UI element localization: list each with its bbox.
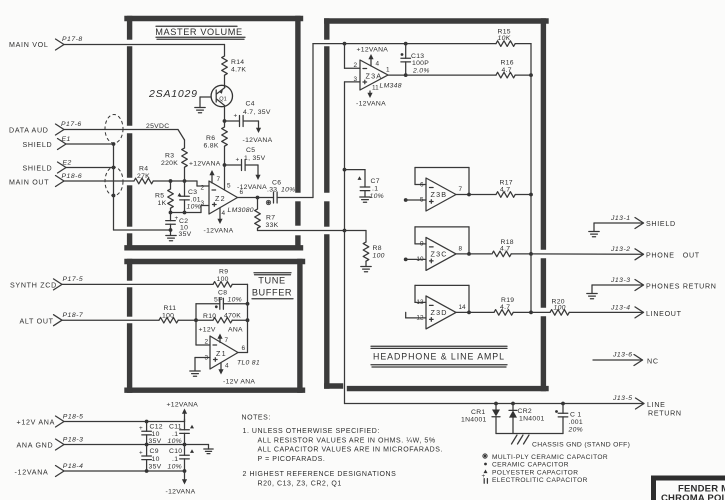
svg-text:4.7: 4.7 bbox=[502, 67, 512, 74]
svg-text:+12VANA: +12VANA bbox=[167, 402, 199, 409]
capacitor C12 10 35V electrolytic bbox=[139, 422, 163, 446]
svg-text:4.7: 4.7 bbox=[500, 304, 510, 311]
svg-text:NOTES:: NOTES: bbox=[242, 415, 271, 422]
svg-text:35V: 35V bbox=[149, 464, 162, 471]
wire + bus corner to Z3D pin12 bbox=[406, 312, 426, 318]
pin 4 label Z3A bbox=[376, 61, 380, 68]
svg-text:ALL CAPACITOR VALUES ARE IN MI: ALL CAPACITOR VALUES ARE IN MICROFARADS. bbox=[258, 447, 444, 454]
enclosure box TUNE BUFFER (thick border with wire gaps) bbox=[127, 262, 303, 391]
svg-text:P18-7: P18-7 bbox=[63, 312, 84, 319]
svg-text:6.8K: 6.8K bbox=[204, 143, 219, 150]
svg-text:Z2: Z2 bbox=[215, 194, 226, 203]
capacitor C6 .33 10% multi-ply bbox=[258, 180, 314, 205]
svg-text:10K: 10K bbox=[498, 35, 511, 42]
svg-text:-12VANA: -12VANA bbox=[166, 489, 196, 496]
power -12V ANA at Z1 pin4 bbox=[218, 363, 255, 386]
svg-text:CR1: CR1 bbox=[471, 409, 486, 416]
svg-text:MULTI-PLY CERAMIC CAPACITOR: MULTI-PLY CERAMIC CAPACITOR bbox=[492, 454, 608, 461]
power -12VANA at Z2 pin4 bbox=[204, 208, 234, 235]
svg-text:MAIN VOL: MAIN VOL bbox=[9, 41, 49, 49]
svg-text:PHONES RETURN: PHONES RETURN bbox=[646, 283, 717, 291]
svg-text:13: 13 bbox=[416, 299, 424, 306]
svg-text:+: + bbox=[139, 450, 143, 457]
svg-text:100: 100 bbox=[217, 276, 229, 283]
svg-text:CHASSIS GND (STAND OFF): CHASSIS GND (STAND OFF) bbox=[532, 442, 630, 449]
junction C7 tap bbox=[343, 168, 347, 172]
svg-text:10%: 10% bbox=[228, 296, 243, 303]
svg-text:1N4001: 1N4001 bbox=[461, 417, 487, 424]
pin 1 label Z3A bbox=[386, 67, 390, 74]
svg-text:P18-4: P18-4 bbox=[63, 463, 84, 470]
capacitor C4 4.7/35V electrolytic bbox=[225, 101, 271, 127]
svg-text:220K: 220K bbox=[161, 160, 178, 167]
svg-text:J13-6: J13-6 bbox=[612, 352, 633, 359]
pin 2 label Z3A bbox=[353, 62, 357, 69]
op-amp Z2 LM3080 bbox=[209, 181, 254, 214]
svg-text:3: 3 bbox=[353, 76, 357, 83]
wire line-return bus bottom to J13-5 bbox=[345, 398, 645, 409]
svg-text:J13-5: J13-5 bbox=[612, 395, 633, 402]
node J13-4 LINEOUT bbox=[610, 305, 682, 318]
svg-text:.1: .1 bbox=[172, 456, 178, 463]
svg-text:.1: .1 bbox=[372, 186, 378, 193]
svg-text:+12VANA: +12VANA bbox=[357, 47, 389, 54]
junction C11 bottom bbox=[183, 443, 187, 447]
wire Z3A pin2 stub bbox=[345, 44, 361, 69]
resistor R18 4.7 bbox=[492, 239, 514, 257]
op-amp Z3C (follower) with feedback loop bbox=[415, 227, 471, 271]
wire E1 to shield bus bbox=[66, 143, 114, 145]
ground at Z1 pin3 bbox=[190, 371, 200, 376]
node J13-1 SHIELD with ground bbox=[589, 215, 676, 237]
wire + input bus (Z3A pin3 down to line return) bbox=[344, 82, 346, 404]
junction Z2 out / R7 / C6 bbox=[256, 196, 260, 200]
svg-text:100: 100 bbox=[162, 312, 174, 319]
svg-text:R6: R6 bbox=[206, 135, 215, 142]
svg-text:2SA1029: 2SA1029 bbox=[148, 88, 198, 100]
wire Q1 base to ground bbox=[200, 97, 211, 108]
note 1 line 3 bbox=[258, 447, 444, 454]
svg-text:P17-5: P17-5 bbox=[63, 276, 84, 283]
svg-text:R9: R9 bbox=[219, 269, 228, 276]
junction R15/R16 output bus bbox=[529, 73, 533, 77]
notes heading bbox=[242, 415, 271, 422]
wire R9 to output rail bbox=[232, 284, 247, 303]
op-amp Z3B (follower) with feedback loop bbox=[415, 168, 471, 212]
op-amp Z1 TL081 bbox=[210, 336, 260, 369]
svg-text:7: 7 bbox=[225, 337, 229, 344]
power +12VANA at Z2 pin7 bbox=[189, 161, 221, 184]
power -12VANA arrow down bbox=[166, 471, 196, 496]
pin 7 label Z2 bbox=[217, 176, 221, 183]
svg-text:E1: E1 bbox=[62, 136, 71, 143]
power -12VANA at C4 bbox=[243, 121, 273, 144]
wire Z3A input node to C13/R15 bbox=[345, 43, 406, 45]
svg-text:TL0 81: TL0 81 bbox=[237, 360, 260, 367]
svg-text:100: 100 bbox=[554, 304, 566, 311]
svg-text:470K: 470K bbox=[224, 313, 241, 320]
svg-text:LINEOUT: LINEOUT bbox=[646, 310, 682, 318]
wire E2 to shield bus bbox=[66, 167, 114, 169]
resistor R20 100 bbox=[550, 299, 569, 316]
svg-text:SHIELD: SHIELD bbox=[23, 165, 53, 173]
svg-text:R16: R16 bbox=[501, 60, 514, 67]
diode CR2 1N4001 bbox=[509, 404, 545, 434]
wire Z3A out to R16 bbox=[406, 74, 496, 76]
svg-text:14: 14 bbox=[459, 304, 467, 311]
wire Z3D out to R19 bbox=[469, 311, 494, 313]
svg-text:LM348: LM348 bbox=[380, 83, 402, 90]
svg-text:1K: 1K bbox=[158, 200, 167, 207]
svg-text:HEADPHONE & LINE AMPL: HEADPHONE & LINE AMPL bbox=[373, 352, 505, 362]
svg-text:+: + bbox=[175, 215, 179, 222]
title block FENDER / CHROMA (clipped at page corner) bbox=[654, 478, 725, 500]
op-amp Z3D (follower) with feedback loop bbox=[415, 285, 471, 329]
capacitor C9 10 35V electrolytic bbox=[142, 445, 152, 472]
junction R4/R5 bbox=[169, 179, 173, 183]
node MAIN OUT / P18-6 bbox=[9, 173, 82, 187]
svg-text:100: 100 bbox=[373, 253, 385, 260]
svg-text:C12: C12 bbox=[150, 424, 163, 431]
wire R11 to R10 node bbox=[178, 319, 196, 321]
resistor R3 220K vertical bbox=[161, 140, 187, 181]
junction C1 top bbox=[561, 402, 565, 406]
svg-text:TUNE: TUNE bbox=[258, 276, 285, 286]
svg-text:POLYESTER CAPACITOR: POLYESTER CAPACITOR bbox=[492, 469, 578, 476]
junction R7-R8 wire crossing + input bus bbox=[343, 229, 347, 233]
svg-text:10%: 10% bbox=[281, 187, 296, 194]
junction C12 top bbox=[145, 420, 149, 424]
wire Z3A pin3 stub bbox=[345, 81, 361, 83]
svg-text:NC: NC bbox=[647, 358, 659, 366]
note 1 line 4 bbox=[258, 456, 326, 463]
note 2 line 1 bbox=[243, 471, 397, 478]
svg-text:10: 10 bbox=[152, 431, 160, 438]
wire Z3A output bbox=[388, 74, 406, 76]
capacitor C2 10 35V electrolytic bbox=[166, 213, 192, 239]
power +12VANA at Z3A pin4 bbox=[357, 47, 389, 67]
svg-text:R11: R11 bbox=[164, 305, 177, 312]
wire R19 to bus bbox=[513, 311, 533, 315]
wire MAIN VOL to R14 bbox=[64, 45, 225, 57]
pin 3 label Z2 bbox=[200, 200, 204, 207]
junction Z3A pin2 node bbox=[343, 42, 347, 46]
junction C3 bottom bbox=[183, 211, 187, 215]
wire P18-4 rail bbox=[64, 470, 185, 472]
svg-text:Z3B: Z3B bbox=[431, 190, 448, 199]
svg-text:CERAMIC CAPACITOR: CERAMIC CAPACITOR bbox=[492, 462, 569, 469]
svg-text:MASTER VOLUME: MASTER VOLUME bbox=[155, 27, 242, 37]
wire Q1 emitter down bbox=[224, 106, 226, 121]
svg-text:.01: .01 bbox=[191, 197, 201, 204]
svg-text:R3: R3 bbox=[165, 153, 174, 160]
junction C13 top bbox=[404, 42, 408, 46]
svg-text:1. UNLESS OTHERWISE SPECIFIED:: 1. UNLESS OTHERWISE SPECIFIED: bbox=[243, 428, 380, 435]
wire Z1 pin3 to ground bbox=[195, 358, 210, 371]
node +12VANA / P18-5 bbox=[17, 414, 84, 428]
svg-text:6: 6 bbox=[240, 189, 244, 196]
node J13-5 LINE RETURN bbox=[612, 395, 682, 418]
svg-text:4.7K: 4.7K bbox=[231, 67, 246, 74]
svg-text:SYNTH ZCD: SYNTH ZCD bbox=[10, 282, 57, 290]
junction CR2 top bbox=[511, 402, 515, 406]
svg-text:J13-2: J13-2 bbox=[610, 246, 631, 253]
svg-text:P18-6: P18-6 bbox=[62, 173, 83, 180]
svg-text:9: 9 bbox=[420, 241, 424, 248]
svg-text:R19: R19 bbox=[501, 297, 514, 304]
svg-text:ELECTROLITIC CAPACITOR: ELECTROLITIC CAPACITOR bbox=[492, 477, 588, 484]
title HEADPHONE & LINE AMPL with overline and underline bbox=[371, 346, 507, 367]
svg-text:2: 2 bbox=[204, 339, 208, 346]
wire Z2 output bbox=[238, 197, 258, 199]
svg-text:5: 5 bbox=[227, 183, 231, 190]
node SYNTH ZCD / P17-5 bbox=[10, 276, 83, 290]
resistor R4 27K bbox=[134, 166, 153, 184]
ground at Q1 base bbox=[195, 108, 205, 113]
svg-text:+12V: +12V bbox=[199, 327, 216, 334]
svg-text:LINE: LINE bbox=[647, 401, 666, 409]
svg-text:1N4001: 1N4001 bbox=[519, 416, 545, 423]
svg-text:4.7, 35V: 4.7, 35V bbox=[243, 109, 271, 116]
svg-text:33K: 33K bbox=[266, 222, 279, 229]
svg-text:C9: C9 bbox=[150, 448, 159, 455]
svg-text:7: 7 bbox=[459, 186, 463, 193]
note 2 line 2 bbox=[258, 480, 342, 487]
enclosure box MASTER VOLUME (dashed thick border with wire gaps) bbox=[127, 19, 301, 248]
pin 6 label Z2 bbox=[240, 189, 244, 196]
svg-text:C5: C5 bbox=[246, 147, 255, 154]
node SHIELD E2 bbox=[23, 160, 72, 174]
junction R10 left bbox=[194, 318, 198, 322]
pin 3 label Z1 bbox=[204, 355, 208, 362]
svg-text:2: 2 bbox=[353, 62, 357, 69]
svg-text:C3: C3 bbox=[188, 189, 197, 196]
labels C9 bbox=[139, 448, 162, 471]
junction Q1 emitter / C4 / R6 bbox=[223, 119, 227, 123]
pin 4 label Z1 bbox=[225, 363, 229, 370]
node J13-2 PHONE OUT bbox=[610, 246, 700, 260]
svg-text:-12V ANA: -12V ANA bbox=[223, 379, 255, 386]
wire ALT OUT to R11 bbox=[62, 319, 159, 321]
wire MAIN OUT to R4 bbox=[64, 180, 134, 182]
wire + bus to Z3B pin5 bbox=[404, 198, 426, 202]
title TUNE BUFFER with overline and underline bbox=[252, 273, 293, 299]
junction C8 right bbox=[246, 302, 250, 306]
svg-text:+: + bbox=[482, 473, 486, 480]
op-amp Z3A LM348 bbox=[360, 60, 402, 90]
node J13-6 NC bbox=[593, 352, 659, 366]
node -12VANA / P18-4 bbox=[15, 463, 84, 477]
junction R4/C3/R3 bbox=[183, 179, 187, 183]
svg-text:E2: E2 bbox=[63, 160, 72, 167]
resistor R7 33K vertical bbox=[255, 198, 279, 231]
wire R4 to Z2 pin2 bbox=[153, 181, 209, 186]
svg-text:25VDC: 25VDC bbox=[146, 123, 169, 130]
svg-text:P17-8: P17-8 bbox=[62, 36, 83, 43]
junction shield to C2 ground wire bbox=[169, 228, 173, 232]
svg-text:RETURN: RETURN bbox=[648, 410, 682, 418]
wire Z3C out to R18 bbox=[469, 253, 491, 255]
pin 3 label Z3A bbox=[353, 76, 357, 83]
wire R7 to R8 node (crosses borders) bbox=[258, 230, 346, 232]
pin 2 label Z2 bbox=[200, 185, 204, 192]
svg-text:6: 6 bbox=[420, 181, 424, 188]
resistor R14 vertical bbox=[222, 56, 247, 75]
resistor R10 470K bbox=[196, 313, 248, 324]
junction C12 bottom bbox=[145, 443, 149, 447]
svg-text:C13: C13 bbox=[411, 53, 424, 60]
svg-text:1, 35V: 1, 35V bbox=[244, 155, 266, 162]
wire P18-3 rail to ground bbox=[64, 445, 209, 450]
svg-text:P17-6: P17-6 bbox=[61, 121, 82, 128]
wire R15 to output bus bbox=[515, 44, 531, 76]
wire DATA AUD to R3 (25VDC net) bbox=[64, 130, 185, 141]
wire R14 to Q1 collector bbox=[224, 75, 226, 87]
labels C10 bbox=[168, 448, 195, 471]
junction shield below ellipse 2 bbox=[112, 194, 116, 198]
capacitor C8 5P 10% ceramic bbox=[196, 290, 248, 310]
wire Z2 pin5 stub bbox=[224, 165, 226, 190]
capacitor C13 100P 2.0% ceramic bbox=[401, 44, 430, 76]
svg-text:11: 11 bbox=[372, 85, 379, 92]
capacitor C7 .1 10% polyester with ground bbox=[345, 170, 385, 203]
ground at ANA GND bbox=[204, 449, 213, 454]
svg-text:J13-3: J13-3 bbox=[610, 277, 631, 284]
svg-text:BUFFER: BUFFER bbox=[252, 288, 292, 298]
svg-text:+12V ANA: +12V ANA bbox=[17, 419, 56, 427]
wire R5-C3 node to Z2 pin3 bbox=[171, 206, 210, 213]
svg-text:R20, C13, Z3, CR2, Q1: R20, C13, Z3, CR2, Q1 bbox=[258, 480, 342, 487]
svg-text:R7: R7 bbox=[266, 215, 275, 222]
svg-text:100P: 100P bbox=[412, 60, 429, 67]
svg-text:2.0%: 2.0% bbox=[412, 68, 430, 75]
svg-text:6: 6 bbox=[242, 345, 246, 352]
pin 5 label Z2 bbox=[227, 183, 231, 190]
svg-text:+: + bbox=[139, 425, 143, 432]
wire to R8 bbox=[345, 230, 367, 232]
wire R6 to Z2 node bbox=[224, 146, 226, 165]
pin 4 label Z2 bbox=[222, 210, 226, 217]
junction C9 bottom bbox=[145, 469, 149, 473]
capacitor C1 .001 20% ceramic bbox=[555, 404, 583, 434]
wire output rail to Z1 out bbox=[238, 304, 248, 353]
capacitor C3 .01 10% polyester bbox=[178, 181, 202, 213]
svg-text:.1: .1 bbox=[172, 431, 178, 438]
svg-text:C6: C6 bbox=[272, 180, 281, 187]
note 1 line 2 bbox=[258, 437, 436, 444]
pin 6 label Z1 bbox=[242, 345, 246, 352]
node MAIN VOL / P17-8 bbox=[9, 36, 83, 50]
svg-text:Z3D: Z3D bbox=[431, 308, 448, 317]
junction R6 / C5 / Z2 pin5 bbox=[223, 163, 227, 167]
svg-text:R5: R5 bbox=[155, 193, 164, 200]
svg-text:-12VANA: -12VANA bbox=[204, 228, 234, 235]
svg-text:P18-5: P18-5 bbox=[63, 414, 84, 421]
wire R18 to bus and PHONE OUT bbox=[511, 252, 643, 256]
legend polyester capacitor bbox=[484, 469, 579, 476]
power -12VANA at Z3A pin11 bbox=[356, 91, 386, 108]
svg-text:SHIELD: SHIELD bbox=[23, 141, 53, 149]
svg-text:J13-4: J13-4 bbox=[610, 305, 631, 312]
svg-text:R4: R4 bbox=[139, 166, 148, 173]
pin 11 label Z3A bbox=[372, 85, 379, 92]
resistor R5 1K vertical bbox=[155, 181, 173, 213]
wire output bus down bbox=[530, 75, 532, 312]
power -12VANA at C5 bbox=[237, 165, 267, 191]
svg-text:ANA GND: ANA GND bbox=[17, 442, 54, 450]
svg-text:4: 4 bbox=[376, 61, 380, 68]
wire + bus to Z3C pin10 bbox=[404, 258, 426, 262]
svg-text:Q1: Q1 bbox=[219, 96, 226, 102]
svg-text:Z1: Z1 bbox=[216, 349, 227, 358]
svg-text:4: 4 bbox=[222, 210, 226, 217]
wire R17 to bus bbox=[515, 193, 533, 197]
svg-text:Z3A: Z3A bbox=[366, 72, 383, 81]
svg-text:8: 8 bbox=[459, 245, 463, 252]
legend multi-ply ceramic capacitor bbox=[483, 454, 608, 461]
svg-text:C 1: C 1 bbox=[570, 412, 581, 419]
svg-text:LM3080: LM3080 bbox=[228, 207, 254, 214]
svg-text:ALT OUT: ALT OUT bbox=[20, 318, 54, 326]
svg-text:.33: .33 bbox=[267, 187, 277, 194]
capacitor C10 .1 10% polyester bbox=[180, 445, 190, 472]
capacitor C11 .1 10% polyester bbox=[168, 422, 195, 446]
svg-text:CHROMA POL: CHROMA POL bbox=[661, 493, 725, 500]
svg-text:+12VANA: +12VANA bbox=[189, 161, 221, 168]
node ANA GND / P18-3 bbox=[17, 437, 84, 451]
svg-text:+: + bbox=[236, 157, 240, 164]
junction CR1 anode bbox=[494, 402, 498, 406]
label CHASSIS GND (STAND OFF) bbox=[532, 442, 630, 449]
svg-text:C11: C11 bbox=[169, 424, 182, 431]
junction E2 bbox=[112, 166, 116, 170]
resistor R11 100 bbox=[159, 305, 178, 323]
wire C8 left rail bbox=[195, 304, 197, 320]
svg-text:10: 10 bbox=[152, 456, 160, 463]
shield cable ellipse 2 (MAIN OUT) bbox=[105, 167, 123, 196]
junction E1 bbox=[112, 142, 116, 146]
title MASTER VOLUME with overline and underline bbox=[155, 26, 245, 39]
wire SYNTH ZCD to R9 bbox=[62, 283, 213, 285]
svg-text:R14: R14 bbox=[231, 59, 244, 66]
wire R20 to LINEOUT bbox=[569, 311, 643, 313]
svg-text:2 HIGHEST REFERENCE DESIGNATI: 2 HIGHEST REFERENCE DESIGNATIONS bbox=[243, 471, 397, 478]
wire Z3B out to R17 bbox=[469, 194, 496, 196]
svg-text:4.7: 4.7 bbox=[500, 186, 510, 193]
svg-text:SHIELD: SHIELD bbox=[646, 220, 676, 228]
node SHIELD E1 bbox=[23, 136, 71, 150]
svg-text:MAIN OUT: MAIN OUT bbox=[9, 179, 49, 187]
resistor R6 vertical bbox=[204, 121, 228, 150]
svg-text:DATA AUD: DATA AUD bbox=[9, 127, 49, 135]
resistor R16 4.7 bbox=[496, 60, 515, 78]
chassis ground symbol (stand off) bbox=[512, 435, 530, 444]
svg-text:R10: R10 bbox=[203, 313, 216, 320]
transistor Q1 (2SA1029) bbox=[211, 85, 232, 106]
svg-text:-12VANA: -12VANA bbox=[15, 468, 49, 476]
svg-text:27K: 27K bbox=[137, 173, 150, 180]
resistor R19 4.7 bbox=[494, 297, 514, 315]
svg-text:ALL RESISTOR VALUES ARE IN OHM: ALL RESISTOR VALUES ARE IN OHMS. ¼W, 5% bbox=[258, 437, 436, 444]
wire left rail to Z1 pin2 bbox=[196, 320, 210, 345]
resistor R17 4.7 bbox=[496, 180, 515, 198]
legend ceramic capacitor bbox=[484, 462, 569, 469]
junction R10 right bbox=[246, 318, 250, 322]
label 2SA1029 bbox=[148, 88, 198, 100]
power +12V ANA at Z1 pin7 bbox=[199, 327, 244, 343]
wire P18-5 rail bbox=[64, 421, 185, 423]
wire C6 up between boxes to Z3A input bbox=[313, 44, 345, 198]
